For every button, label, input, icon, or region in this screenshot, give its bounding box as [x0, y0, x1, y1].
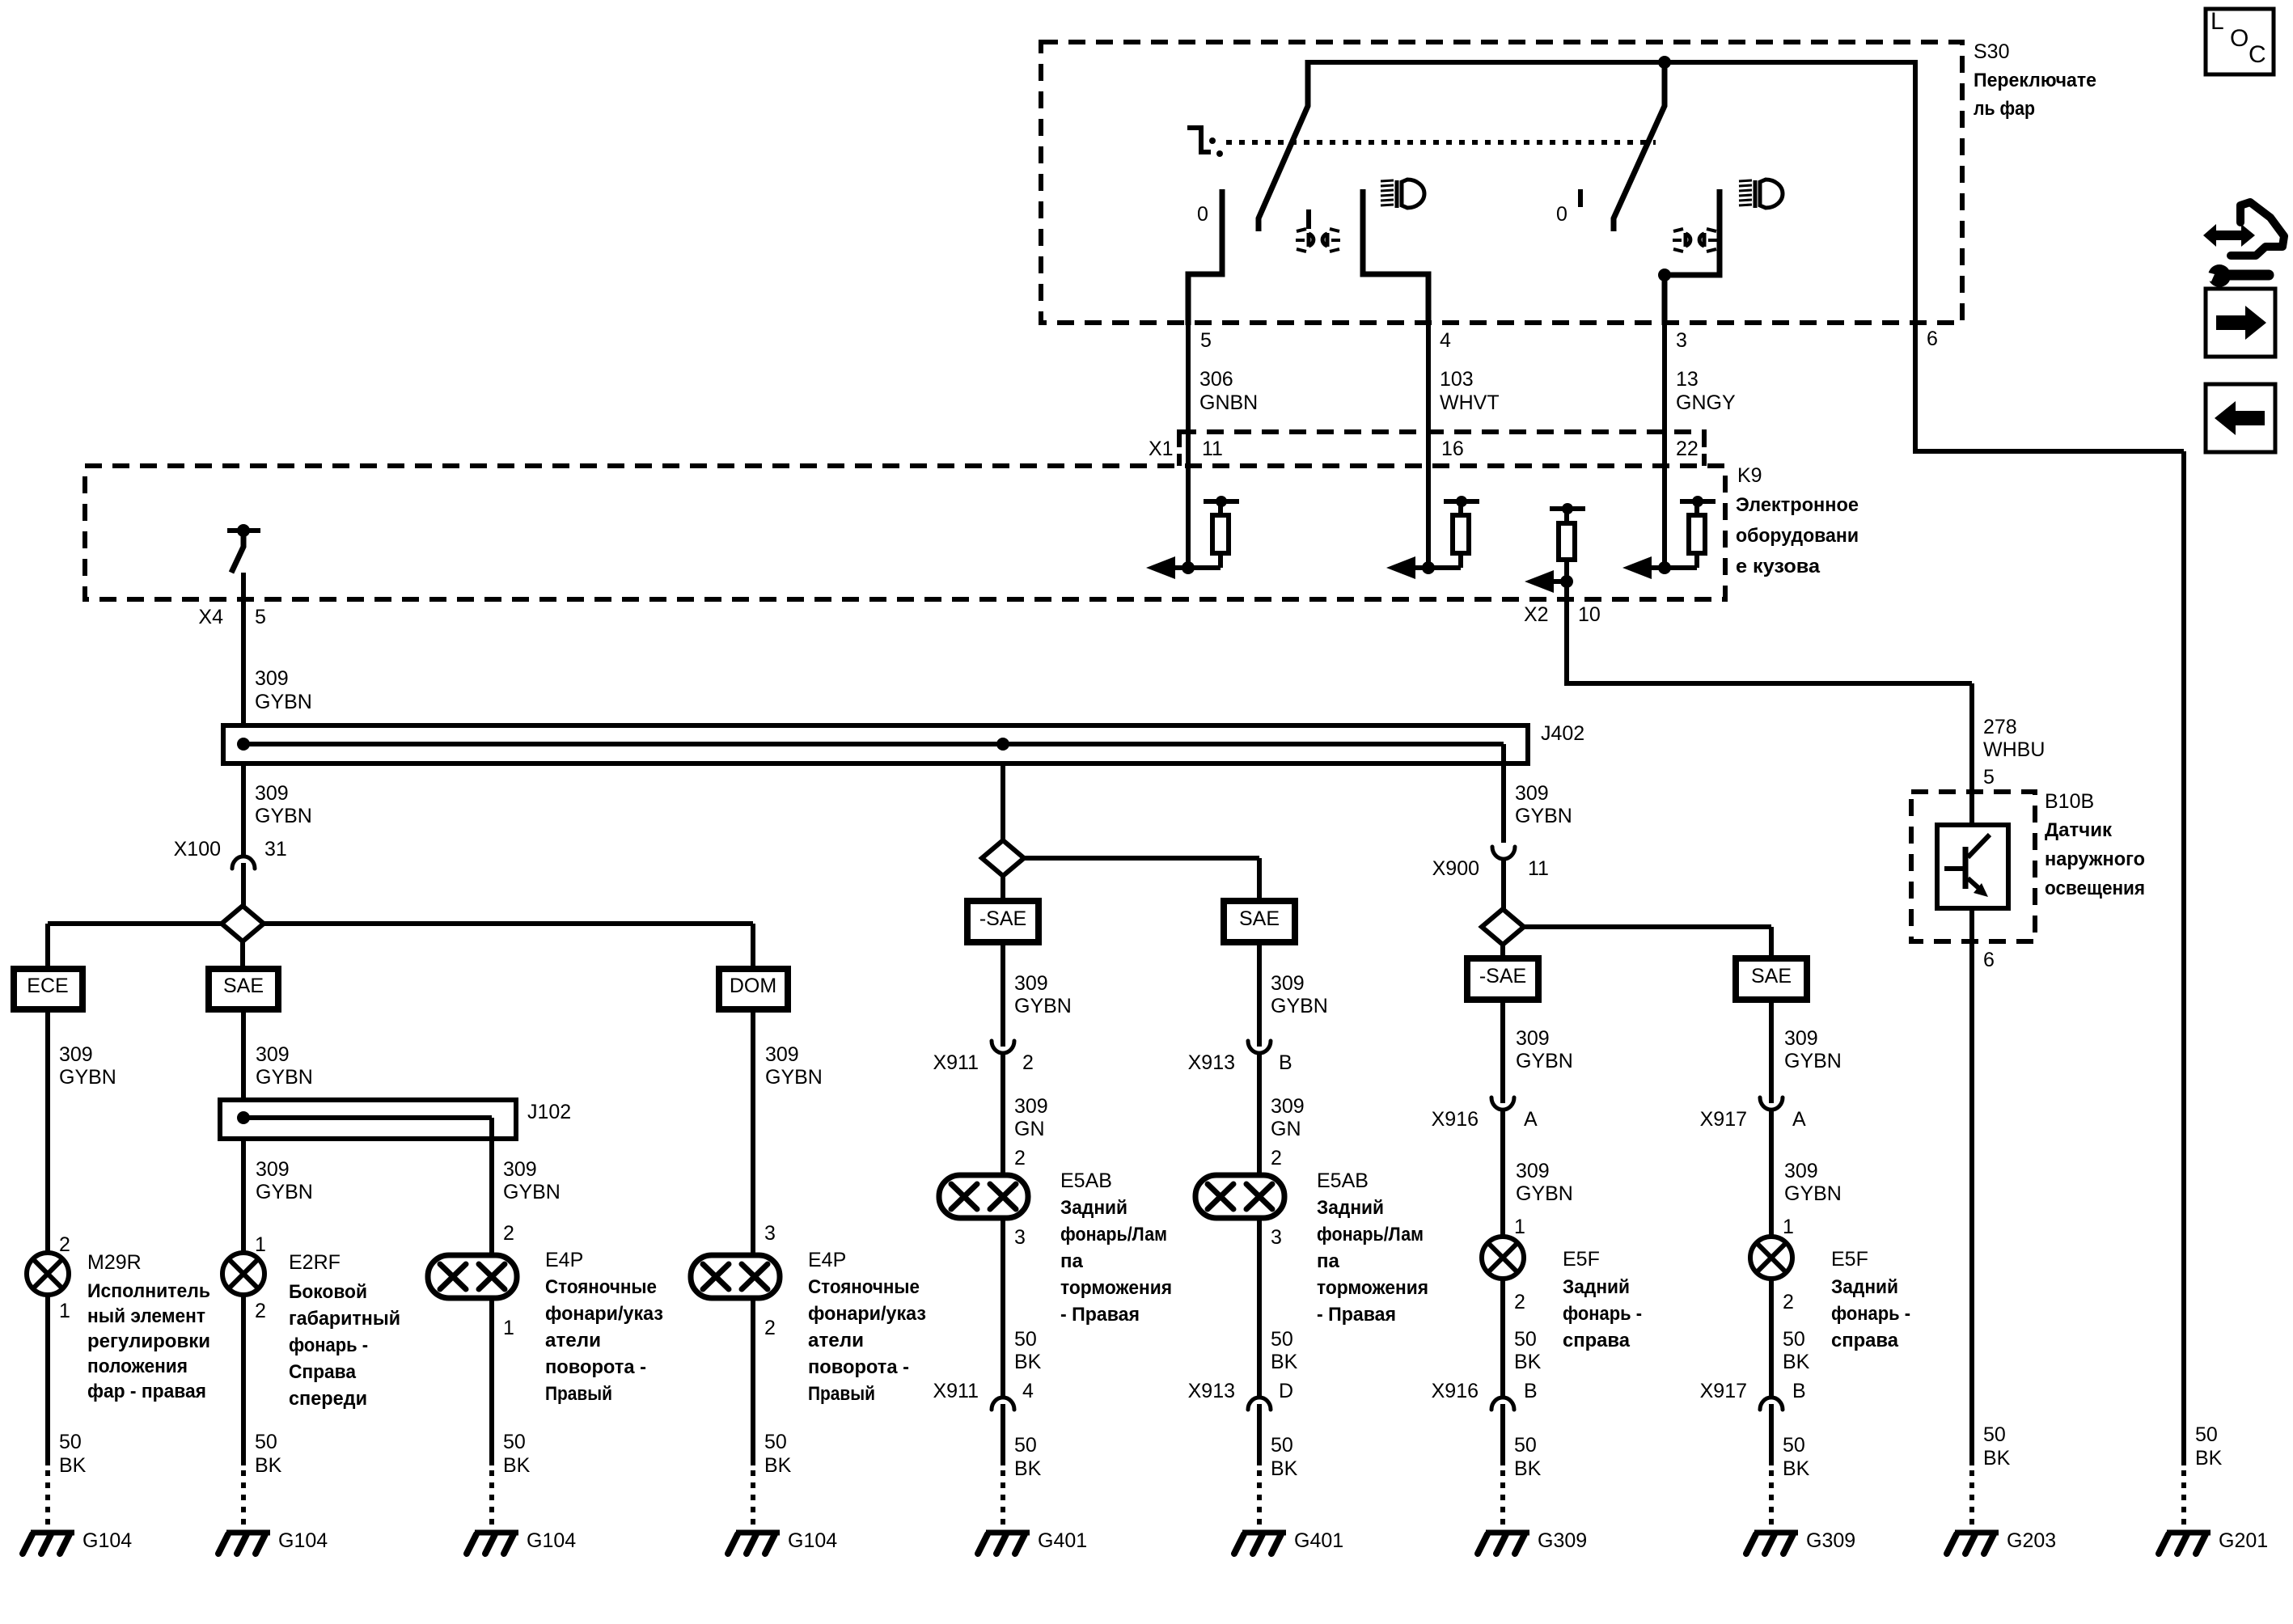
- ground G401: [1242, 1530, 1286, 1536]
- svg-text:габаритный: габаритный: [289, 1308, 400, 1330]
- svg-text:10: 10: [1578, 603, 1601, 626]
- -SAE option box (E5AB-1): [967, 901, 1039, 942]
- load resistor (K9 internal): [1453, 515, 1469, 553]
- connector X911 upper: [992, 1041, 1014, 1053]
- svg-text:Справа: Справа: [289, 1361, 357, 1383]
- svg-text:50: 50: [1014, 1328, 1037, 1351]
- svg-text:S30: S30: [1974, 40, 2009, 63]
- wire (E5AB-2 box to X913): [1257, 942, 1262, 1047]
- svg-text:Исполнитель: Исполнитель: [87, 1280, 210, 1302]
- svg-text:спереди: спереди: [289, 1388, 367, 1410]
- arrow box (left): [2206, 384, 2275, 452]
- ground G203: [1955, 1530, 1999, 1536]
- svg-text:1: 1: [1514, 1216, 1525, 1238]
- svg-text:50: 50: [503, 1431, 526, 1453]
- dotted wire to ground G104 at x=608: [489, 1470, 494, 1529]
- wire (diamond A down): [240, 941, 245, 969]
- svg-text:X2: X2: [1524, 603, 1549, 626]
- svg-text:309: 309: [765, 1043, 799, 1066]
- svg-text:2: 2: [764, 1317, 776, 1339]
- svg-text:1: 1: [1783, 1216, 1794, 1238]
- svg-text:BK: BK: [1271, 1457, 1298, 1480]
- wire (B10B to ground): [1969, 908, 1974, 1465]
- svg-text:2: 2: [255, 1300, 266, 1322]
- svg-text:50: 50: [1783, 1434, 1805, 1457]
- splice diamond node C: [1482, 909, 1524, 945]
- svg-text:поворота -: поворота -: [545, 1356, 646, 1378]
- svg-text:освещения: освещения: [2045, 878, 2145, 899]
- svg-text:50: 50: [59, 1431, 82, 1453]
- wire (X2 to B10B): [1564, 681, 1972, 686]
- splice diamond node B: [982, 840, 1024, 876]
- svg-text:SAE: SAE: [223, 975, 264, 997]
- svg-text:309: 309: [1271, 972, 1305, 995]
- svg-text:0: 0: [1556, 203, 1567, 226]
- svg-text:G104: G104: [527, 1529, 576, 1552]
- svg-text:ль фар: ль фар: [1974, 98, 2035, 120]
- SAE option box (E5F-2): [1736, 958, 1807, 1000]
- svg-text:A: A: [1792, 1108, 1806, 1131]
- svg-text:2: 2: [1014, 1147, 1026, 1169]
- svg-text:фонарь/Лам: фонарь/Лам: [1317, 1224, 1424, 1245]
- wire 13 GNGY: [1662, 323, 1667, 568]
- svg-text:Задний: Задний: [1317, 1197, 1384, 1219]
- lamp E2RF side marker: [222, 1253, 264, 1295]
- wire (lamp E5F-2 down): [1769, 1279, 1774, 1398]
- svg-text:E5F: E5F: [1563, 1248, 1600, 1271]
- svg-text:G203: G203: [2007, 1529, 2056, 1552]
- svg-text:фонарь/Лам: фонарь/Лам: [1060, 1224, 1167, 1245]
- wire (S30 pin 6 output): [1913, 60, 1918, 451]
- svg-text:G401: G401: [1294, 1529, 1343, 1552]
- svg-text:309: 309: [255, 667, 289, 690]
- ground G309: [1486, 1530, 1529, 1536]
- svg-text:Переключате: Переключате: [1974, 70, 2096, 91]
- svg-text:-SAE: -SAE: [979, 907, 1026, 930]
- ground G309: [1754, 1530, 1798, 1536]
- ECE option box: [14, 969, 82, 1009]
- wire (X913 to ground): [1257, 1404, 1262, 1465]
- svg-text:SAE: SAE: [1751, 965, 1792, 988]
- svg-text:GYBN: GYBN: [255, 691, 312, 713]
- svg-text:3: 3: [1676, 329, 1687, 352]
- svg-text:GYBN: GYBN: [256, 1066, 313, 1089]
- svg-text:Электронное: Электронное: [1736, 494, 1859, 516]
- svg-text:фонарь -: фонарь -: [1563, 1303, 1642, 1325]
- svg-text:O: O: [2230, 25, 2249, 52]
- svg-text:50: 50: [2195, 1423, 2218, 1446]
- svg-text:- Правая: - Правая: [1317, 1304, 1396, 1326]
- wire (E4P-1 to ground): [489, 1298, 494, 1465]
- wire (diamond C right branch): [1524, 924, 1771, 929]
- svg-text:X900: X900: [1432, 857, 1479, 880]
- parking lamp icon (left switch): [1309, 233, 1314, 247]
- svg-text:положения: положения: [87, 1355, 188, 1377]
- svg-text:309: 309: [1271, 1095, 1305, 1118]
- X100 connector: [232, 856, 255, 869]
- phototransistor Q (B10B): [1963, 847, 1969, 889]
- svg-text:X100: X100: [174, 838, 221, 861]
- svg-text:309: 309: [255, 782, 289, 805]
- svg-text:GYBN: GYBN: [503, 1181, 561, 1203]
- svg-text:ECE: ECE: [27, 975, 68, 997]
- headlamp icon (left switch): [1381, 180, 1394, 205]
- S30 headlamp switch dashed box: [1041, 42, 1962, 323]
- svg-text:торможения: торможения: [1060, 1277, 1172, 1299]
- svg-text:50: 50: [1271, 1434, 1293, 1457]
- load resistor (K9 internal, X2 branch): [1559, 523, 1575, 560]
- svg-text:GYBN: GYBN: [1515, 805, 1572, 827]
- wire (lamp E5AB-2 down): [1257, 1218, 1262, 1398]
- connector X917 lower: [1760, 1398, 1783, 1410]
- svg-text:Датчик: Датчик: [2045, 819, 2113, 841]
- svg-text:G104: G104: [82, 1529, 132, 1552]
- svg-text:E5AB: E5AB: [1060, 1169, 1112, 1192]
- svg-text:фонарь -: фонарь -: [289, 1334, 368, 1356]
- svg-text:оборудовани: оборудовани: [1736, 525, 1859, 547]
- svg-text:G309: G309: [1538, 1529, 1587, 1552]
- svg-text:BK: BK: [255, 1454, 282, 1477]
- junction dot J402 left: [237, 738, 250, 751]
- svg-text:B: B: [1792, 1380, 1806, 1402]
- lamp E5F-2 tail: [1750, 1237, 1792, 1279]
- svg-text:Стояночные: Стояночные: [808, 1276, 920, 1298]
- wire (X4 pin 5 drop): [241, 573, 246, 728]
- junction dot J402 mid: [996, 738, 1009, 751]
- wire (DOM drop): [751, 1009, 755, 1255]
- wire (X917 to ground): [1769, 1404, 1774, 1465]
- lamp E5AB-1 tail/stop: [939, 1175, 1028, 1218]
- svg-text:GYBN: GYBN: [256, 1181, 313, 1203]
- wire (J402 to X100): [241, 763, 246, 856]
- wire (S30 internal feed bus): [1305, 60, 1915, 65]
- svg-text:WHVT: WHVT: [1440, 391, 1500, 414]
- svg-text:1: 1: [503, 1317, 514, 1339]
- svg-text:BK: BK: [1514, 1351, 1542, 1373]
- detent hook symbol: [1187, 128, 1211, 152]
- position 1 tick (left switch): [1306, 209, 1311, 229]
- lamp M29R headlamp leveling actuator: [27, 1253, 69, 1295]
- svg-text:278: 278: [1983, 716, 2017, 738]
- svg-text:X913: X913: [1188, 1380, 1235, 1402]
- svg-text:G401: G401: [1038, 1529, 1087, 1552]
- svg-text:1: 1: [59, 1300, 70, 1322]
- svg-text:2: 2: [1783, 1291, 1794, 1313]
- service icon (arrows/wrench): [2203, 224, 2255, 247]
- wire (pin 3 drop inside S30): [1662, 275, 1668, 325]
- svg-text:11: 11: [1202, 438, 1223, 460]
- svg-text:M29R: M29R: [87, 1251, 142, 1274]
- svg-text:BK: BK: [2195, 1447, 2223, 1470]
- wire (node to resistor): [1414, 565, 1461, 570]
- wire (diamond A left branch): [48, 921, 222, 926]
- svg-text:50: 50: [1514, 1328, 1537, 1351]
- arrow (signal continues): [1525, 570, 1554, 593]
- svg-text:50: 50: [1514, 1434, 1537, 1457]
- wire (node to resistor): [1174, 565, 1221, 570]
- svg-text:Стояночные: Стояночные: [545, 1276, 657, 1298]
- svg-text:J102: J102: [527, 1101, 571, 1123]
- svg-text:ный элемент: ный элемент: [87, 1305, 205, 1327]
- left switch blade (S30): [1259, 60, 1308, 231]
- svg-text:2: 2: [1514, 1291, 1525, 1313]
- wire (diamond B down): [1001, 876, 1005, 901]
- junction dot: [1422, 561, 1435, 574]
- svg-text:G104: G104: [788, 1529, 837, 1552]
- svg-text:11: 11: [1528, 857, 1549, 880]
- wire (diamond B right branch): [1024, 856, 1259, 861]
- svg-text:309: 309: [1784, 1160, 1818, 1182]
- arrow (signal continues): [1622, 556, 1652, 579]
- svg-text:2: 2: [1022, 1051, 1034, 1074]
- svg-text:X917: X917: [1700, 1108, 1747, 1131]
- K9 body electronics dashed box: [85, 466, 1725, 599]
- svg-text:атели: атели: [545, 1330, 601, 1351]
- wire (E4P-2 to ground): [751, 1298, 755, 1465]
- connector X916 upper: [1491, 1097, 1514, 1110]
- B10B ambient light sensor dashed box: [1911, 792, 2035, 941]
- J102 splice pack: [220, 1100, 516, 1139]
- svg-text:31: 31: [264, 838, 287, 861]
- svg-text:X913: X913: [1188, 1051, 1235, 1074]
- connector X911 lower: [992, 1398, 1014, 1410]
- svg-text:BK: BK: [59, 1454, 87, 1477]
- svg-text:фонари/указ: фонари/указ: [808, 1303, 926, 1325]
- splice diamond node A: [222, 906, 264, 941]
- wire (diamond C down): [1500, 945, 1505, 958]
- wire (M29R to ground): [45, 1295, 50, 1465]
- svg-text:6: 6: [1983, 949, 1995, 971]
- wire (lamp E5AB-1 down): [1001, 1218, 1005, 1398]
- X4 switch contact (K9 internal): [227, 528, 260, 533]
- wire (X913 to lamp E5AB-2): [1257, 1051, 1262, 1175]
- svg-text:X917: X917: [1700, 1380, 1747, 1402]
- B10B sensor body box: [1937, 825, 2008, 908]
- pin 3 fixed contact: [1665, 189, 1720, 275]
- svg-text:па: па: [1060, 1250, 1083, 1272]
- arrow box (right): [2206, 289, 2275, 357]
- wire (J402 to diamond B): [1001, 763, 1005, 842]
- pin 5 fixed contact: [1188, 189, 1222, 325]
- svg-text:торможения: торможения: [1317, 1277, 1428, 1299]
- svg-text:GN: GN: [1014, 1118, 1045, 1140]
- wire (X2 pin 10 drop): [1564, 582, 1569, 683]
- position 0 tick (right switch): [1578, 189, 1583, 207]
- svg-text:50: 50: [255, 1431, 277, 1453]
- right switch blade (S30): [1614, 65, 1665, 231]
- ground G104: [226, 1530, 270, 1536]
- wire (E5F-2 box to X917): [1769, 1000, 1774, 1103]
- junction dot: [1182, 561, 1195, 574]
- svg-text:5: 5: [1983, 766, 1995, 789]
- svg-text:справа: справа: [1831, 1330, 1899, 1351]
- svg-text:GNBN: GNBN: [1199, 391, 1258, 414]
- connector X913 lower: [1248, 1398, 1271, 1410]
- wire 306 GNBN: [1186, 323, 1191, 568]
- svg-text:103: 103: [1440, 368, 1474, 391]
- J102 bus wire: [243, 1115, 492, 1120]
- svg-text:6: 6: [1927, 328, 1938, 350]
- svg-text:K9: K9: [1737, 464, 1762, 487]
- wire (node to resistor): [1650, 565, 1697, 570]
- wire (X100 to splice diamond): [241, 863, 246, 907]
- svg-text:Боковой: Боковой: [289, 1281, 367, 1303]
- svg-text:GNGY: GNGY: [1676, 391, 1736, 414]
- wire (X916 to lamp E5F-1): [1500, 1108, 1505, 1237]
- svg-text:Задний: Задний: [1060, 1197, 1127, 1219]
- dotted wire to ground G401 at x=1240: [1001, 1470, 1005, 1529]
- connector X913 upper: [1248, 1041, 1271, 1053]
- svg-text:GYBN: GYBN: [1014, 995, 1072, 1017]
- svg-text:GYBN: GYBN: [1516, 1182, 1573, 1205]
- svg-text:B: B: [1524, 1380, 1538, 1402]
- wire (X900 to diamond C): [1501, 857, 1506, 911]
- svg-text:-SAE: -SAE: [1479, 965, 1526, 988]
- svg-text:BK: BK: [1783, 1351, 1810, 1373]
- SAE option box: [209, 969, 278, 1009]
- dotted wire to ground G104 at x=301: [241, 1470, 246, 1529]
- svg-text:е кузова: е кузова: [1736, 556, 1821, 577]
- wire (X916 to ground): [1500, 1404, 1505, 1465]
- svg-text:BK: BK: [1014, 1457, 1042, 1480]
- arrow (signal continues): [1146, 556, 1175, 579]
- svg-text:22: 22: [1676, 438, 1699, 460]
- svg-text:- Правая: - Правая: [1060, 1304, 1140, 1326]
- svg-text:поворота -: поворота -: [808, 1356, 909, 1378]
- svg-text:GN: GN: [1271, 1118, 1301, 1140]
- connector X917 upper: [1760, 1097, 1783, 1110]
- svg-text:GYBN: GYBN: [255, 805, 312, 827]
- svg-text:50: 50: [1271, 1328, 1293, 1351]
- lamp E4P park/turn right (1): [428, 1255, 517, 1298]
- LOC legend box: [2206, 9, 2274, 74]
- svg-text:309: 309: [59, 1043, 93, 1066]
- svg-text:Правый: Правый: [808, 1383, 875, 1405]
- ground G201: [2167, 1530, 2211, 1536]
- wire (J402 right exit to X900): [1501, 744, 1506, 843]
- svg-text:309: 309: [1784, 1027, 1818, 1050]
- svg-text:B10B: B10B: [2045, 790, 2094, 813]
- dotted wire to ground G309 at x=1858: [1500, 1470, 1505, 1529]
- svg-text:BK: BK: [503, 1454, 531, 1477]
- svg-text:фонарь -: фонарь -: [1831, 1303, 1910, 1325]
- svg-text:B: B: [1279, 1051, 1292, 1074]
- SAE option box (E5AB-2): [1224, 901, 1295, 942]
- ground G401: [986, 1530, 1030, 1536]
- svg-text:2: 2: [1271, 1147, 1282, 1169]
- svg-text:атели: атели: [808, 1330, 864, 1351]
- svg-text:X911: X911: [933, 1051, 979, 1074]
- load resistor (K9 internal): [1689, 515, 1705, 553]
- wire (ECE drop): [45, 1009, 50, 1253]
- wire (diamond A right branch): [264, 921, 753, 926]
- svg-text:3: 3: [1271, 1226, 1282, 1249]
- svg-text:309: 309: [256, 1043, 290, 1066]
- wire (E5F-1 box to X916): [1500, 1000, 1505, 1103]
- svg-text:Задний: Задний: [1563, 1276, 1630, 1298]
- svg-text:2: 2: [503, 1222, 514, 1245]
- svg-text:фар - правая: фар - правая: [87, 1381, 206, 1402]
- DOM option box: [719, 969, 788, 1009]
- svg-text:50: 50: [1783, 1328, 1805, 1351]
- svg-text:309: 309: [1516, 1027, 1550, 1050]
- wire (lamp E5F-1 down): [1500, 1279, 1505, 1398]
- svg-text:E4P: E4P: [545, 1249, 583, 1271]
- wire (E5AB-1 box to X911): [1001, 942, 1005, 1047]
- svg-text:X916: X916: [1432, 1108, 1479, 1131]
- lamp E5AB-2 tail/stop: [1195, 1175, 1284, 1218]
- wire (X911 to lamp E5AB-1): [1001, 1051, 1005, 1175]
- dotted wire to ground G203 at x=2438: [1969, 1470, 1974, 1529]
- junction dot J102: [237, 1111, 250, 1124]
- pin 4 fixed contact: [1363, 189, 1428, 325]
- svg-text:3: 3: [764, 1222, 776, 1245]
- junction dot: [1658, 561, 1671, 574]
- dotted wire to ground G104 at x=59: [45, 1470, 50, 1529]
- svg-text:BK: BK: [1983, 1447, 2011, 1470]
- svg-text:306: 306: [1199, 368, 1233, 391]
- svg-text:309: 309: [1515, 782, 1549, 805]
- svg-text:G309: G309: [1806, 1529, 1855, 1552]
- svg-text:Задний: Задний: [1831, 1276, 1898, 1298]
- svg-text:BK: BK: [1271, 1351, 1298, 1373]
- svg-text:13: 13: [1676, 368, 1699, 391]
- dotted wire to ground G104 at x=931: [751, 1470, 755, 1529]
- J402 bus wire: [243, 742, 1504, 746]
- svg-text:4: 4: [1440, 329, 1451, 352]
- svg-text:BK: BK: [764, 1454, 792, 1477]
- svg-text:па: па: [1317, 1250, 1339, 1272]
- ground G104: [31, 1530, 74, 1536]
- wire (E2RF to ground): [241, 1295, 246, 1465]
- connector X916 lower: [1491, 1398, 1514, 1410]
- ground G104: [736, 1530, 780, 1536]
- dotted wire to ground G309 at x=2190: [1769, 1470, 1774, 1529]
- svg-text:309: 309: [503, 1158, 537, 1181]
- connector X900: [1492, 847, 1515, 859]
- svg-text:309: 309: [1014, 1095, 1048, 1118]
- mechanical link dotted line: [1226, 140, 1656, 145]
- wire (X917 to lamp E5F-2): [1769, 1108, 1774, 1237]
- svg-text:BK: BK: [1783, 1457, 1810, 1480]
- svg-text:D: D: [1279, 1380, 1293, 1402]
- wire (SAE drop): [241, 1009, 246, 1100]
- wire (X911 to ground): [1001, 1404, 1005, 1465]
- svg-text:2: 2: [59, 1233, 70, 1256]
- svg-text:X4: X4: [198, 606, 223, 628]
- svg-text:309: 309: [1014, 972, 1048, 995]
- svg-text:G104: G104: [278, 1529, 328, 1552]
- svg-text:DOM: DOM: [730, 975, 776, 997]
- svg-text:SAE: SAE: [1239, 907, 1280, 930]
- svg-text:X1: X1: [1149, 438, 1174, 460]
- svg-text:16: 16: [1441, 438, 1464, 460]
- svg-text:GYBN: GYBN: [765, 1066, 823, 1089]
- svg-text:L: L: [2211, 8, 2224, 35]
- svg-text:наружного: наружного: [2045, 848, 2145, 870]
- -SAE option box (E5F-1): [1467, 958, 1538, 1000]
- junction dot pin3: [1658, 269, 1671, 281]
- svg-text:1: 1: [255, 1233, 266, 1256]
- svg-text:GYBN: GYBN: [59, 1066, 116, 1089]
- svg-text:регулировки: регулировки: [87, 1330, 210, 1352]
- dotted wire to ground G401 at x=1557: [1257, 1470, 1262, 1529]
- svg-text:309: 309: [256, 1158, 290, 1181]
- svg-text:C: C: [2249, 41, 2266, 68]
- svg-text:G201: G201: [2219, 1529, 2268, 1552]
- junction node on feed bus: [1658, 56, 1671, 69]
- J402 splice pack: [223, 725, 1528, 763]
